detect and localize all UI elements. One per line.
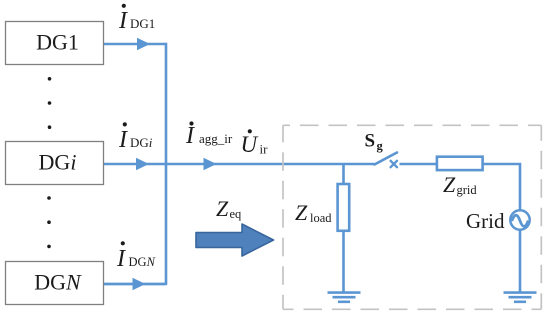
block DGN (6, 262, 104, 305)
label I_DGN (116, 241, 156, 272)
bus vertical wire (104, 43, 166, 284)
resistor Z_grid (437, 157, 483, 170)
label I_DG1 (118, 4, 155, 34)
svg-text:I: I (118, 127, 128, 153)
wire DGi to bus (104, 163, 166, 166)
switch Sg blade (375, 153, 398, 165)
svg-text:I: I (118, 8, 128, 34)
label U_ir (241, 129, 269, 157)
equivalent impedance block arrow Z_eq (196, 224, 274, 256)
block DGi (6, 142, 104, 185)
AC source circle (Grid) (510, 210, 529, 229)
label I_DGi (118, 122, 153, 153)
svg-text:Grid: Grid (466, 209, 505, 233)
wire Z_load to ground (342, 231, 345, 292)
svg-text:S: S (365, 131, 376, 152)
wire Z_grid to Grid source (482, 164, 520, 211)
label Z_eq (216, 196, 242, 221)
svg-text:Z: Z (443, 172, 456, 197)
ground under Z_load (328, 293, 361, 302)
svg-text:DGN: DGN (34, 269, 82, 294)
svg-text:I: I (185, 123, 195, 149)
svg-text:load: load (310, 211, 332, 225)
label Sg (365, 131, 384, 154)
block DG1 (6, 22, 104, 65)
svg-text:g: g (377, 139, 384, 153)
ellipsis dots between DGi and DGN (47, 196, 51, 248)
svg-text:eq: eq (230, 207, 243, 221)
svg-text:U: U (241, 132, 259, 157)
svg-text:DGN: DGN (129, 255, 156, 269)
wire Grid source to ground (519, 230, 522, 292)
arrowhead I_DG1 (137, 38, 150, 51)
svg-text:Z: Z (295, 200, 308, 225)
wire DG1 to bus (104, 43, 166, 46)
arrowhead I_DGN (133, 278, 146, 291)
label Z_load (295, 200, 332, 225)
svg-text:DGi: DGi (130, 135, 153, 150)
svg-text:agg_ir: agg_ir (199, 131, 233, 146)
arrowhead I_DGi (136, 158, 149, 171)
wire switch to Z_grid (400, 163, 438, 166)
wire DGN to bus (104, 283, 165, 286)
svg-text:I: I (116, 246, 126, 272)
svg-text:Z: Z (216, 196, 229, 221)
ground under Grid (504, 293, 537, 302)
dashed equivalent-circuit boundary (283, 125, 541, 309)
node: Z_load junction wire (342, 164, 345, 184)
svg-text:DG1: DG1 (130, 16, 155, 31)
label Z_grid (443, 172, 477, 197)
svg-text:DG1: DG1 (36, 29, 79, 54)
resistor Z_load (338, 184, 350, 231)
svg-text:DGi: DGi (39, 149, 77, 174)
main output wire to switch (166, 163, 375, 166)
switch open-contact x mark (391, 161, 397, 167)
svg-text:ir: ir (260, 142, 269, 157)
svg-text:grid: grid (457, 183, 478, 197)
ellipsis dots between DG1 and DGi (48, 77, 52, 129)
arrowhead I_agg_ir (204, 158, 217, 171)
label I_agg_ir (185, 121, 233, 149)
